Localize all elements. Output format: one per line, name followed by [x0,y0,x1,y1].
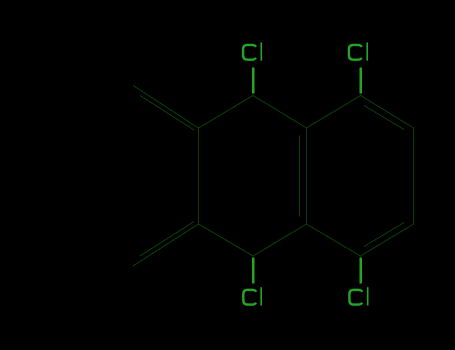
wire bond I-H [253,224,307,256]
wire bond B-C [253,96,307,129]
wire bond D-C [307,96,361,129]
atom label Cl top-right [349,42,368,60]
wire bond D-E inner double [364,106,404,130]
wire bond A-J vertical [198,128,200,224]
wire bond K-A inner double [140,96,194,131]
wire bond I-J [199,224,254,256]
wire bond D-E [361,96,414,129]
wire C-Cl bond bottom-right [359,258,362,284]
wire bond G-H [307,224,361,256]
wire bond C-H central vertical [306,128,308,224]
wire bond B-A (C9 to C9a) [199,96,254,129]
wire C-Cl bond top-right [359,68,362,94]
wire C-Cl bond bottom-left [252,258,255,284]
wire bond G-F [361,224,414,256]
wire bond K-A exocyclic [133,86,199,129]
wire C-Cl bond top-left [252,68,255,94]
wire bond C-H inner double [299,136,301,217]
atom label Cl top-left [243,42,262,60]
atom label Cl bottom-right [349,287,368,305]
wire bond E-F vertical [413,128,415,224]
wire bond G-F inner double [364,223,404,247]
atom label Cl bottom-left [243,287,262,305]
wire bond M-J inner double [140,222,194,257]
wire bond M-J exocyclic [133,224,199,266]
